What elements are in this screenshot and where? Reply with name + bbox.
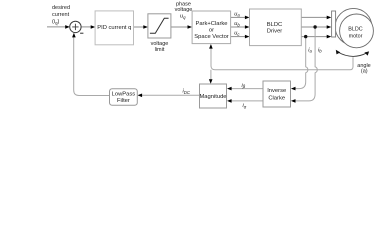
svg-text:current: current bbox=[52, 12, 70, 18]
svg-text:Filter: Filter bbox=[117, 98, 130, 104]
svg-text:Space Vector: Space Vector bbox=[194, 34, 229, 40]
svg-text:PID current q: PID current q bbox=[97, 25, 131, 31]
svg-text:limit: limit bbox=[155, 47, 165, 53]
svg-text:Clarke: Clarke bbox=[268, 95, 285, 101]
svg-text:LowPass: LowPass bbox=[112, 92, 136, 98]
svg-text:Driver: Driver bbox=[267, 28, 283, 34]
svg-text:iα: iα bbox=[243, 103, 247, 109]
svg-text:(a): (a) bbox=[361, 69, 368, 75]
svg-text:ia: ia bbox=[308, 47, 312, 53]
svg-text:Magnitude: Magnitude bbox=[199, 94, 226, 100]
svg-text:desired: desired bbox=[52, 5, 70, 11]
svg-text:BLDC: BLDC bbox=[348, 27, 362, 33]
svg-text:iDC: iDC bbox=[183, 89, 191, 95]
svg-text:iβ: iβ bbox=[242, 83, 246, 89]
svg-text:voltage: voltage bbox=[175, 7, 193, 13]
svg-text:Inverse: Inverse bbox=[267, 88, 286, 94]
svg-text:or: or bbox=[209, 28, 214, 34]
svg-text:ua: ua bbox=[234, 11, 240, 17]
svg-text:BLDC: BLDC bbox=[267, 22, 282, 28]
svg-text:motor: motor bbox=[349, 34, 363, 40]
svg-text:voltage: voltage bbox=[151, 41, 169, 47]
svg-text:ub: ub bbox=[234, 21, 240, 27]
svg-text:ib: ib bbox=[318, 47, 322, 53]
svg-text:(iq): (iq) bbox=[52, 19, 59, 26]
svg-text:uc: uc bbox=[234, 31, 240, 37]
svg-text:Park+Clarke: Park+Clarke bbox=[195, 21, 227, 27]
svg-text:uq: uq bbox=[180, 14, 186, 20]
